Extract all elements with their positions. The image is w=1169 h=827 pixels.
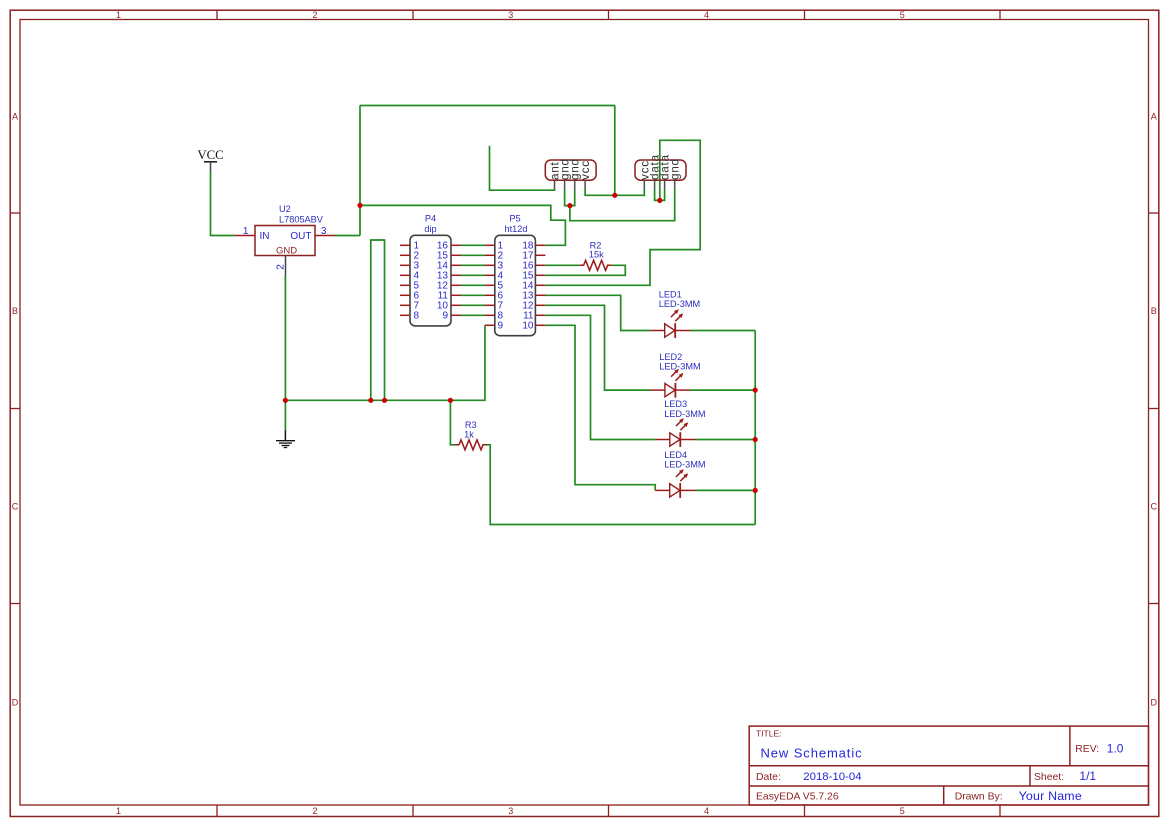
svg-text:8: 8 [414, 311, 420, 322]
svg-text:gnd: gnd [668, 158, 682, 180]
svg-text:P5: P5 [509, 214, 520, 224]
svg-text:D: D [12, 698, 19, 708]
wire data net to P5 pin 14 [545, 140, 700, 285]
wire P4 pin16 to P5 pin1 [461, 244, 485, 246]
wire antenna dangling to ant pin [490, 146, 555, 190]
voltage regulator U2 L7805ABV [235, 204, 335, 276]
svg-text:dip: dip [424, 224, 436, 234]
resistor R3 1k [455, 420, 487, 450]
svg-text:1: 1 [116, 806, 121, 816]
power flag VCC [197, 148, 223, 172]
svg-text:B: B [1151, 306, 1157, 316]
title block [749, 726, 1148, 805]
svg-text:2: 2 [275, 264, 286, 270]
junction ground rail jumper right [382, 398, 387, 403]
wire gnd pins of left header tied [565, 190, 575, 206]
svg-text:1k: 1k [464, 429, 474, 439]
svg-text:EasyEDA V5.7.26: EasyEDA V5.7.26 [756, 791, 839, 802]
LED LED2 [651, 352, 701, 398]
wire P4 pin13 to P5 pin4 [461, 274, 485, 276]
connector header (ant gnd gnd vcc) [545, 158, 596, 189]
svg-text:U2: U2 [279, 204, 291, 214]
wire inverted-U jumper on ground rail [371, 240, 385, 400]
svg-text:3: 3 [508, 10, 513, 20]
wire gnd net to right header gnd [570, 190, 675, 221]
svg-text:B: B [12, 306, 18, 316]
svg-text:OUT: OUT [290, 231, 311, 242]
svg-text:New Schematic: New Schematic [761, 746, 863, 761]
svg-text:9: 9 [498, 321, 504, 332]
junction ground rail jumper left [368, 398, 373, 403]
LED LED3 [655, 399, 705, 447]
junction gnd pins tie [567, 203, 572, 208]
wire VCC symbol to U2 pin1 [211, 171, 236, 236]
wire LED1 cathode to bus [691, 330, 756, 332]
wire data pins tied [655, 190, 665, 201]
svg-text:5: 5 [900, 806, 905, 816]
wire R2 to P5 pin15 [545, 265, 625, 275]
wire P5 pin13 to LED1 [545, 295, 650, 330]
svg-text:1.0: 1.0 [1107, 742, 1124, 756]
junction at VCC riser and branch [357, 203, 362, 208]
wire P4 pin11 to P5 pin6 [461, 294, 485, 296]
wire VCC rail between headers [585, 190, 644, 196]
wire ground rail to ground symbol [284, 400, 286, 430]
svg-text:C: C [1150, 502, 1157, 512]
wire U2 pin2 down to ground rail [284, 276, 286, 401]
svg-text:LED-3MM: LED-3MM [659, 299, 700, 309]
svg-text:Sheet:: Sheet: [1034, 772, 1064, 783]
junction data pins tie [657, 198, 662, 203]
svg-text:9: 9 [442, 311, 448, 322]
svg-text:A: A [12, 112, 18, 122]
svg-text:Your Name: Your Name [1019, 789, 1082, 803]
svg-text:2018-10-04: 2018-10-04 [803, 771, 861, 783]
svg-text:P4: P4 [425, 214, 436, 224]
LED LED4 [655, 450, 705, 498]
junction bus at LED4 [753, 488, 758, 493]
wire LED2 cathode to bus [691, 389, 756, 391]
svg-text:REV:: REV: [1075, 744, 1099, 755]
wire LED cathode bus vertical [754, 331, 756, 525]
wire top VCC loop horizontal [360, 105, 615, 107]
svg-text:vcc: vcc [578, 160, 592, 180]
svg-text:Date:: Date: [756, 772, 781, 783]
svg-text:LED4: LED4 [664, 450, 687, 460]
svg-text:LED-3MM: LED-3MM [664, 459, 705, 469]
svg-text:2: 2 [312, 806, 317, 816]
wire U2 pin3 to node [335, 235, 360, 237]
wire P5 pin16 to R2 [545, 264, 579, 266]
junction bus at LED3 [753, 437, 758, 442]
LED LED1 [650, 289, 700, 338]
resistor R2 15k [580, 240, 612, 270]
svg-text:2: 2 [312, 10, 317, 20]
svg-text:3: 3 [321, 226, 327, 237]
svg-text:A: A [1151, 112, 1157, 122]
wire vertical VCC riser at x=360 [359, 106, 361, 236]
svg-text:1: 1 [243, 226, 249, 237]
wire P4 pin14 to P5 pin3 [461, 264, 485, 266]
svg-text:3: 3 [508, 806, 513, 816]
svg-text:D: D [1150, 698, 1157, 708]
wire R3 to LED cathode bus bottom [487, 445, 755, 525]
wire P5 pin11 to LED3 [545, 315, 655, 439]
wire P4 pin15 to P5 pin2 [461, 254, 485, 256]
svg-text:15k: 15k [589, 250, 604, 260]
svg-text:LED-3MM: LED-3MM [664, 409, 705, 419]
wire P4 pin10 to P5 pin7 [461, 304, 485, 306]
connector P5 ht12d [485, 214, 546, 336]
svg-text:10: 10 [522, 321, 534, 332]
wire P4 pin9 to P5 pin8 [461, 314, 485, 316]
ground symbol [276, 430, 295, 447]
svg-text:VCC: VCC [197, 148, 223, 162]
junction on VCC rail [612, 193, 617, 198]
svg-text:R3: R3 [465, 420, 477, 430]
svg-text:C: C [12, 502, 19, 512]
junction ground rail at U2 GND [283, 398, 288, 403]
svg-text:ht12d: ht12d [505, 224, 528, 234]
svg-text:LED2: LED2 [659, 352, 682, 362]
svg-text:TITLE:: TITLE: [756, 729, 782, 739]
svg-text:LED-3MM: LED-3MM [659, 361, 700, 371]
wire LED4 cathode to bus [696, 489, 756, 491]
wire LED3 cathode to bus [696, 439, 756, 441]
wire P5 pin10 to LED4 [545, 325, 655, 490]
svg-text:1/1: 1/1 [1079, 769, 1096, 783]
svg-text:IN: IN [260, 231, 270, 242]
wire P4 pin12 to P5 pin5 [461, 284, 485, 286]
svg-text:5: 5 [900, 10, 905, 20]
svg-text:Drawn By:: Drawn By: [955, 791, 1003, 802]
svg-text:L7805ABV: L7805ABV [279, 215, 324, 225]
connector P4 dip [400, 214, 461, 326]
junction ground rail at R3 [448, 398, 453, 403]
connector header (vcc data data gnd) [635, 154, 686, 189]
svg-text:4: 4 [704, 10, 709, 20]
wire P5 pin9 to ground rail [285, 325, 485, 400]
junction bus at LED2 [753, 388, 758, 393]
svg-text:4: 4 [704, 806, 709, 816]
svg-text:LED3: LED3 [664, 399, 687, 409]
wire P5 pin12 to LED2 [545, 305, 650, 390]
svg-text:GND: GND [276, 246, 297, 257]
wire ground rail to R3 [450, 400, 455, 445]
svg-text:1: 1 [116, 10, 121, 20]
wire VCC drop at x=615 [614, 106, 616, 196]
wire VCC branch to P5 pin 18 [360, 205, 565, 245]
